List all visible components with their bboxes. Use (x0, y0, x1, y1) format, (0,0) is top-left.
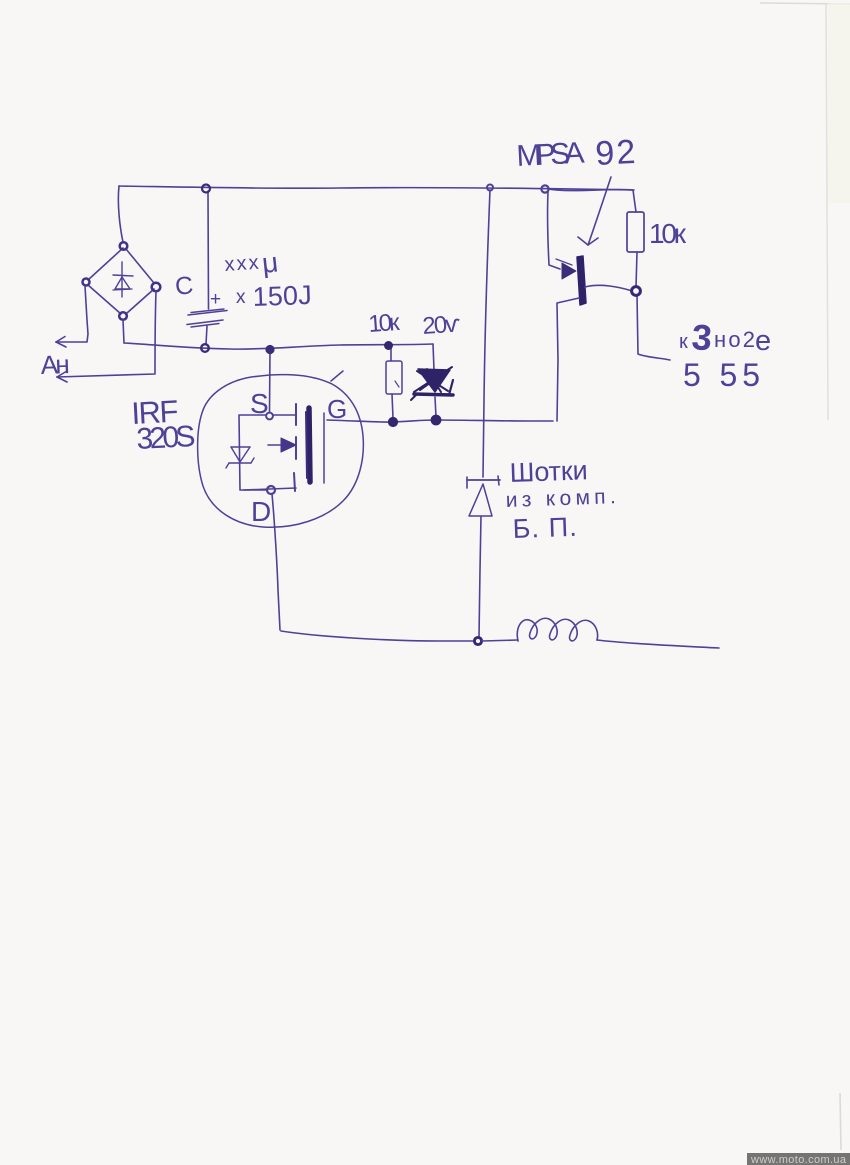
svg-text:x: x (236, 287, 246, 308)
svg-text:3: 3 (690, 316, 713, 358)
svg-text:но2: но2 (714, 327, 755, 352)
svg-text:+: + (210, 289, 221, 310)
svg-text:150J: 150J (252, 280, 312, 312)
svg-text:G: G (327, 394, 347, 424)
svg-text:D: D (251, 496, 271, 527)
svg-text:10к: 10к (649, 218, 687, 249)
svg-text:C: C (174, 271, 195, 301)
svg-text:10к: 10к (368, 309, 401, 338)
svg-text:Ан: Ан (40, 349, 70, 380)
svg-text:xxx: xxx (224, 252, 259, 276)
svg-text:μ: μ (260, 246, 279, 279)
svg-text:Б. П.: Б. П. (512, 512, 577, 544)
svg-text:20ѵ: 20ѵ (422, 310, 462, 340)
svg-text:www.moto.com.ua: www.moto.com.ua (750, 1154, 847, 1165)
svg-text:Шотки: Шотки (509, 455, 588, 488)
svg-text:320S: 320S (136, 420, 197, 456)
svg-text:из комп.: из комп. (505, 485, 616, 512)
svg-text:к: к (679, 331, 688, 353)
svg-text:MPSA: MPSA (516, 136, 586, 173)
svg-text:S: S (250, 388, 269, 419)
svg-text:5 55: 5 55 (683, 357, 760, 393)
svg-text:е: е (755, 325, 771, 357)
